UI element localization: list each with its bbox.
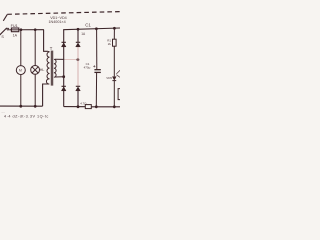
diode VD3 (61, 86, 66, 91)
wire to transformer primary (44, 30, 48, 52)
diode VD2 (76, 42, 81, 47)
bottom DC rail right segment (91, 106, 120, 108)
wire secondary top faint continuation (64, 58, 78, 60)
wire mains top (19, 29, 44, 31)
wire lamp branch down (34, 30, 36, 66)
capacitor C1 plus sign (93, 65, 95, 67)
transformer T core (50, 51, 52, 86)
mains plug dashed boundary line (7, 12, 120, 15)
wire meter branch to rail (20, 75, 22, 107)
wire fuse input (9, 29, 11, 31)
fuse FU1 through line (11, 29, 18, 31)
svg-text:T: T (50, 46, 53, 51)
node right column bottom (77, 105, 80, 108)
svg-text:C1: C1 (85, 22, 91, 27)
node secondary to right column (77, 58, 80, 61)
lamp HL cross (32, 67, 38, 73)
switch S contact circle (7, 28, 9, 30)
node R1 top (113, 27, 116, 30)
wire secondary top to bridge (55, 58, 64, 60)
wire meter branch down (20, 30, 22, 66)
svg-text:M: M (19, 69, 22, 73)
resistor R1 body (113, 39, 117, 46)
bottom DC rail left segment (64, 106, 86, 108)
diode VD4 (76, 86, 81, 91)
resistor R2 body (85, 105, 91, 109)
mains plug dashed boundary corner (3, 14, 7, 20)
right edge cropped symbol arrows (116, 70, 120, 77)
wire lamp branch to rail (34, 74, 36, 106)
wire LED to rail (113, 81, 115, 107)
node C1 bottom (95, 105, 98, 108)
svg-text:1N4001×4: 1N4001×4 (49, 20, 66, 24)
wire bridge right column faint mid (77, 47, 79, 87)
svg-text:2k: 2k (108, 42, 112, 46)
meter M circle (16, 66, 25, 75)
diode VD1 (61, 42, 66, 47)
bottom mains rail (0, 105, 43, 107)
capacitor C1 wire top (96, 29, 98, 70)
svg-text:HL: HL (40, 68, 45, 72)
capacitor C1 plates (94, 69, 100, 71)
node lamp to rail (34, 105, 37, 108)
svg-text:4.7Ω: 4.7Ω (80, 101, 87, 105)
LED VD5 (112, 77, 116, 81)
svg-text:....: .... (2, 110, 6, 114)
svg-text:4·4 dZ-dt-3.3V 1Q-tc: 4·4 dZ-dt-3.3V 1Q-tc (4, 115, 49, 119)
wire R1 to LED (113, 46, 115, 76)
wire bridge right column top (77, 29, 79, 42)
node lamp branch junction (34, 28, 37, 31)
svg-text:1A: 1A (13, 33, 18, 37)
wire bridge left column (63, 30, 65, 107)
wire primary bottom (43, 84, 47, 106)
node meter branch junction (20, 28, 23, 31)
node secondary to left column (62, 75, 65, 78)
wire secondary bottom to bridge (55, 76, 64, 78)
background (0, 0, 120, 119)
right edge cropped component box (118, 89, 120, 100)
node R1 branch bottom (113, 105, 116, 108)
node C1 top (95, 27, 98, 30)
top DC bus (63, 28, 120, 30)
svg-text:470μ: 470μ (84, 65, 91, 69)
node meter to rail (19, 105, 22, 108)
lamp HL circle (31, 66, 40, 75)
transformer T primary winding (46, 51, 49, 84)
resistor R1 wire top (113, 28, 115, 39)
switch S blade (0, 28, 7, 35)
svg-text:VD5: VD5 (106, 76, 112, 80)
capacitor C1 wire bottom (95, 73, 97, 107)
node right column top (77, 28, 80, 31)
fuse FU1 body (11, 28, 18, 32)
svg-text:FU1: FU1 (11, 24, 18, 28)
transformer T secondary winding (54, 59, 56, 77)
wire bridge right column bottom (77, 91, 79, 107)
